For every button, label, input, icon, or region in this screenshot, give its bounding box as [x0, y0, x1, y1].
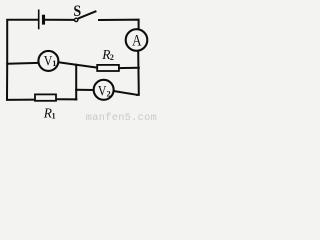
wire corner to V2 right	[114, 91, 137, 95]
wire switch to top-right corner	[98, 20, 139, 30]
ammeter A	[126, 29, 148, 51]
wire middle-left to V1	[7, 62, 38, 65]
switch S pivot	[75, 18, 78, 21]
svg-text:S: S	[73, 3, 81, 20]
resistor R1	[35, 94, 56, 100]
svg-text:2: 2	[107, 90, 111, 99]
wire R1 to branch T	[56, 98, 77, 100]
node left-middle junction	[6, 63, 8, 65]
wire top-left segment	[7, 20, 38, 64]
switch S blade	[78, 11, 96, 19]
wire V2 left to branch	[75, 89, 93, 91]
svg-text:2: 2	[110, 53, 114, 62]
battery B1	[39, 10, 44, 30]
wire branch vertical	[75, 64, 77, 100]
wire ammeter down right side	[136, 51, 139, 95]
svg-text:1: 1	[52, 111, 56, 120]
node bottom branch junction	[75, 98, 77, 100]
wire R2 to right vertical	[119, 67, 139, 69]
voltmeter V2	[94, 80, 114, 100]
node middle branch junction	[75, 64, 77, 66]
wire left-lower segment	[7, 64, 35, 100]
voltmeter V1	[38, 51, 58, 71]
resistor R2	[97, 65, 119, 71]
wire battery to switch	[45, 19, 74, 21]
node V2 tap junction	[75, 89, 77, 91]
svg-text:manfen5.com: manfen5.com	[86, 112, 157, 122]
svg-text:1: 1	[52, 59, 56, 68]
svg-text:A: A	[132, 32, 142, 49]
wire V1 to R2	[58, 62, 97, 67]
node right-middle junction	[138, 67, 140, 69]
